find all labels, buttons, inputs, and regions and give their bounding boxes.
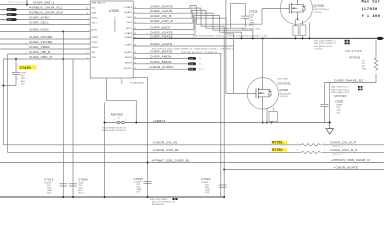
wire CHGR_BAT_1	[0, 0, 90, 6]
svg-text:+PPDCIN_S5B_CHGR_R: +PPDCIN_S5B_CHGR_R	[331, 158, 370, 162]
svg-text:CHGR_CBI_R: CHGR_CBI_R	[29, 50, 51, 54]
svg-text:C7690: C7690	[78, 178, 88, 182]
svg-text:SMB_CHGR_AGND: SMB_CHGR_AGND	[150, 198, 168, 201]
label Q7035	[277, 78, 291, 98]
svg-text:CHGR_DGATE: CHGR_DGATE	[150, 4, 173, 8]
wire CHGR_AGATE	[133, 9, 191, 13]
svg-text:DCMP: DCMP	[91, 37, 98, 39]
svg-text:C7025: C7025	[249, 10, 258, 14]
svg-text:+PPBAT_S5B_CHGR_RL: +PPBAT_S5B_CHGR_RL	[151, 159, 190, 163]
wire +PPBAT_S5B_CHGR_RL row	[0, 158, 384, 162]
svg-text:+SMBAT: +SMBAT	[153, 119, 166, 123]
svg-text:C7026: C7026	[201, 177, 211, 181]
wire CHGR_CBO_R	[3, 55, 90, 60]
svg-text:CSIP: CSIP	[126, 17, 132, 19]
svg-text:20C: 20C	[21, 83, 25, 85]
svg-text:CHGR_AMON: CHGR_AMON	[150, 54, 171, 58]
U7000 pin ACIN pin 2	[88, 29, 98, 33]
svg-text:Q7030: Q7030	[313, 4, 324, 8]
svg-text:CHGR_CSO_R: CHGR_CSO_R	[150, 19, 174, 23]
wire CHGR_BOOT	[133, 26, 194, 31]
svg-text:CHGR_LGATE: CHGR_LGATE	[150, 42, 172, 46]
label Q7030	[313, 4, 329, 14]
svg-text:SCL: SCL	[91, 8, 96, 10]
svg-text:CHGR_ACIN: CHGR_ACIN	[29, 28, 49, 32]
wire LGATE drop	[329, 83, 331, 123]
wire CHGR_DGATE	[133, 4, 190, 8]
wire CHGR_PHASE	[133, 34, 384, 38]
wire ACIN drop	[62, 32, 64, 60]
svg-text:CSIN: CSIN	[126, 22, 132, 24]
U7000 pin CBI pin 10	[87, 52, 96, 55]
wire C7095 vertical	[133, 78, 147, 197]
capacitor C7013	[44, 178, 67, 195]
svg-text:1: 1	[114, 120, 115, 122]
wire CHGR_CSO_R	[133, 19, 193, 23]
wire CHGR_AMON	[133, 54, 189, 59]
svg-text:2: 2	[324, 143, 325, 145]
svg-text:SMB_CHGR_SDA_2: SMB_CHGR_SDA_2	[331, 88, 349, 91]
svg-text:+CHGR_ACDRV: +CHGR_ACDRV	[149, 65, 174, 69]
wire AGND rail	[0, 196, 225, 198]
svg-text:C7013: C7013	[44, 178, 54, 182]
svg-text:SYNC: SYNC	[91, 18, 98, 20]
U7000 pin DCMP pin 7	[88, 37, 99, 40]
resistor R7052	[272, 148, 358, 156]
capacitor C7095	[134, 177, 152, 194]
svg-text:ISL88731RTZ: ISL88731RTZ	[131, 83, 145, 85]
capacitor C7690	[67, 178, 88, 195]
svg-text:NO STUFF: NO STUFF	[346, 49, 363, 53]
svg-text:+CHGR_CSI_RL: +CHGR_CSI_RL	[153, 141, 179, 145]
connector pill AMON	[188, 57, 201, 60]
svg-text:ACIN: ACIN	[91, 29, 97, 32]
U7000 pin PHASE pin 22	[124, 36, 136, 39]
U7000 pin DGATE pin 21	[124, 6, 136, 9]
wire top vertical	[225, 0, 227, 93]
wire HSRBUS_CHGR_SDA	[0, 11, 90, 15]
U7000 pin BGATE pin 18	[124, 51, 136, 54]
wire CHGR_VCORE	[0, 40, 90, 45]
wire CHGR_LGATE	[133, 42, 233, 51]
transistor Q7035	[247, 78, 278, 109]
svg-text:CHGR_BAT_1: CHGR_BAT_1	[33, 1, 55, 5]
svg-text:CELL: CELL	[91, 23, 98, 25]
svg-text:SIA3365DPN: SIA3365DPN	[279, 92, 291, 95]
svg-text:C7650: C7650	[20, 66, 31, 70]
wire CHGR_BGATE	[133, 49, 221, 54]
resistor R7039 (NO STUFF)	[346, 40, 378, 83]
svg-text:AGATE: AGATE	[124, 11, 132, 14]
wire PHASE to Q7035 drain	[262, 38, 264, 86]
capacitor C7025	[241, 3, 259, 30]
svg-text:CBI: CBI	[91, 52, 95, 54]
svg-text:HSRBUS_CHGR_SDA: HSRBUS_CHGR_SDA	[29, 11, 63, 15]
transistor Q7030	[280, 0, 312, 24]
svg-text:SJM3132DN8-01: SJM3132DN8-01	[313, 9, 329, 11]
wire +CHGR_CSI_RL row	[3, 141, 384, 145]
wire CBO rail left	[2, 59, 4, 145]
svg-text:23: 23	[2, 9, 4, 11]
connector pill BMON	[188, 62, 201, 65]
svg-text:SDA: SDA	[91, 12, 96, 15]
svg-text:BMON: BMON	[125, 62, 132, 64]
svg-text:L7030-N1: L7030-N1	[313, 12, 321, 14]
U7000 pin AMON pin 14	[125, 56, 136, 59]
svg-text:1/10W 5% ##: 1/10W 5% ##	[332, 154, 343, 156]
svg-text:NON_LOAD_SUSPECT_1: NON_LOAD_SUSPECT_1	[314, 40, 337, 43]
svg-text:2: 2	[324, 150, 325, 152]
svg-text:XXX: XXX	[249, 25, 254, 27]
svg-text:R7039: R7039	[350, 56, 361, 60]
wire C7025 top	[231, 2, 246, 4]
connector oval SDA	[2, 13, 17, 17]
connector pill ACDRV	[188, 68, 205, 71]
svg-text:R7052: R7052	[272, 148, 283, 152]
svg-text:LGATE: LGATE	[124, 44, 132, 47]
wire DGATE bundle	[190, 6, 282, 25]
svg-text:CHGR_BGATE: CHGR_BGATE	[150, 49, 173, 53]
wire CBI rail left	[7, 54, 9, 152]
U7000 pin SDA pin 25	[86, 12, 97, 16]
svg-text:CHGR_SYNC: CHGR_SYNC	[29, 16, 50, 20]
svg-text:+CHGR_AGATE: +CHGR_AGATE	[334, 166, 359, 170]
wire HSRBUS_CHGR_SCL	[0, 6, 90, 10]
svg-text:HSRBUS_CHGR_SCL: HSRBUS_CHGR_SCL	[29, 6, 63, 10]
wire CHGR_PHASE_RC	[325, 79, 377, 83]
svg-text:SMB_BAT_R: SMB_BAT_R	[91, 2, 105, 5]
svg-text:L-2-NOTE: L-2-NOTE	[314, 48, 323, 50]
svg-text:ACD_CTL3_BUFFER_1_M: ACD_CTL3_BUFFER_1_M	[152, 201, 175, 204]
svg-text:PLACE NEAR L7030: PLACE NEAR L7030	[242, 28, 260, 31]
svg-text:Q7035: Q7035	[279, 88, 288, 92]
wire CHGR_UGATE	[133, 30, 195, 35]
svg-text:CHGR_BMON: CHGR_BMON	[150, 60, 171, 64]
svg-text:2: 2	[17, 78, 18, 80]
wire BGATE vertical	[220, 53, 222, 197]
wire CHGR_DCORE	[0, 35, 90, 39]
svg-text:DGATE: DGATE	[124, 6, 132, 9]
svg-text:L7030-N1: L7030-N1	[280, 96, 288, 98]
connector oval SYNC	[2, 18, 17, 22]
wire +CHGR_AGATE row	[224, 166, 384, 170]
U7000 pin VREG pin 1	[88, 47, 98, 50]
wire CHGR_CELL	[0, 21, 90, 25]
svg-text:20C-1: 20C-1	[79, 192, 86, 194]
jumper RW7000	[102, 113, 126, 132]
U7000 pin CSIP pin 25	[126, 17, 136, 19]
svg-text:NON_LTBR_ACOUSTIC_2_IN_CHGR_XX: NON_LTBR_ACOUSTIC_2_IN_CHGR_XX	[181, 51, 218, 54]
svg-text:#1: #1	[199, 64, 201, 66]
wire CHGR_BMON	[133, 60, 189, 65]
svg-text:SMB_CHGR_ACDETECT_JUDGE_L : 1: SMB_CHGR_ACDETECT_JUDGE_L : 1 SM NON_LTB…	[193, 35, 267, 38]
U7000 bottom pad pin stub	[120, 78, 122, 84]
capacitor C7650	[2, 59, 36, 86]
note AGND block	[150, 198, 178, 206]
svg-text:CHGR_PHASE_RC: CHGR_PHASE_RC	[334, 79, 364, 83]
wire CSIP bundle	[192, 11, 245, 29]
wire UGATE bundle	[195, 18, 234, 34]
svg-text:UGATE: UGATE	[124, 32, 132, 35]
wire CHGR_CBI_R	[8, 50, 91, 55]
svg-text:#1: #1	[199, 58, 201, 60]
svg-text:PACKAGE-M1: PACKAGE-M1	[152, 203, 164, 206]
U7000 pin AGATE pin 4	[124, 11, 135, 14]
svg-text:1: 1	[17, 65, 18, 67]
svg-text:CHGR_VCORE: CHGR_VCORE	[29, 40, 52, 44]
svg-text:CHGR_PHASE: CHGR_PHASE	[150, 34, 173, 38]
svg-text:ISL6259AHRTZ: ISL6259AHRTZ	[114, 16, 117, 32]
off-page box PPBUS right	[378, 37, 383, 40]
U7000 pin CELL pin 1	[88, 23, 98, 26]
wire chip bottom route	[107, 78, 137, 123]
svg-text:ALU: ALU	[21, 80, 26, 83]
capacitor C7026	[201, 177, 227, 194]
svg-text:1: 1	[297, 150, 298, 152]
U7000 pin SCL pin 23	[86, 8, 97, 11]
svg-text:XXX: XXX	[47, 192, 52, 194]
wire PGND horizontal	[105, 122, 330, 124]
resistor box Q7035 sense	[269, 107, 277, 122]
wire +CHGR_ACDRV	[133, 65, 189, 69]
svg-text:PHASE: PHASE	[124, 36, 132, 39]
svg-text:CHGR_DCORE: CHGR_DCORE	[29, 35, 53, 39]
U7000 pin LGATE pin 20	[124, 44, 136, 47]
wire Q7030 to rail	[295, 19, 297, 25]
svg-text:22: 22	[118, 118, 120, 120]
wire CHGR_CSI_R	[133, 14, 192, 18]
svg-text:C7095: C7095	[134, 177, 144, 181]
svg-text:CHGR_WAKE_NOTE: CHGR_WAKE_NOTE	[331, 91, 350, 94]
resistor box Q7030 source 1	[293, 26, 298, 36]
resistor box Q7030 source 2	[300, 25, 306, 36]
wire Q7035 source leads	[262, 109, 264, 123]
U7000 pin BOOT pin 24	[126, 28, 136, 30]
svg-text:PPBUS_G3H_CHGR: PPBUS_G3H_CHGR	[8, 2, 28, 4]
U7000 pin SYNC pin 1	[88, 18, 98, 21]
note max current	[362, 0, 381, 19]
groups inserted below	[86, 1, 145, 85]
wire LGATE drop to Q7035 gate	[233, 34, 235, 94]
svg-text:CHGR_BOOT: CHGR_BOOT	[150, 26, 171, 30]
svg-text:NVR_CHRG: NVR_CHRG	[278, 78, 289, 80]
svg-text:CHGR_CBO_R: CHGR_CBO_R	[29, 55, 53, 59]
note block right	[314, 40, 350, 51]
svg-text:BOOT: BOOT	[126, 28, 133, 30]
wire +CHGR_CSO_RL row	[8, 148, 384, 152]
svg-text:(L7030: (L7030	[362, 7, 378, 12]
svg-text:5%: 5%	[362, 63, 365, 65]
U7000 pin VCMP pin 1	[88, 42, 99, 45]
svg-text:25V: 25V	[21, 75, 25, 77]
U7000 pin ACDRV pin 16	[124, 67, 136, 70]
svg-text:RW7000: RW7000	[111, 113, 124, 117]
resistor R7051	[272, 141, 356, 149]
svg-text:CHGR_CELL: CHGR_CELL	[29, 21, 49, 25]
svg-text:VCMP: VCMP	[91, 42, 98, 44]
node PHASE junction dots	[241, 37, 243, 39]
wire BOOT bundle	[194, 16, 242, 39]
node PGND dots	[262, 122, 264, 124]
svg-text:11: 11	[2, 19, 4, 21]
svg-text:CHGR_CSO_R_P: CHGR_CSO_R_P	[330, 148, 357, 152]
wire SMB vertical left	[104, 103, 106, 198]
svg-text:PLA_INRUSH_NOTE: PLA_INRUSH_NOTE	[314, 45, 333, 48]
svg-text:CRYSTAL: CRYSTAL	[277, 82, 291, 86]
svg-text:CHGR_AGATE: CHGR_AGATE	[150, 9, 173, 13]
svg-text:2: 2	[125, 120, 126, 122]
svg-text:VREG: VREG	[91, 47, 98, 49]
svg-text:AMON: AMON	[125, 56, 132, 59]
capacitor C7039 (NO STUFF)	[321, 83, 348, 123]
svg-text:U7000: U7000	[109, 9, 119, 13]
svg-text:1: 1	[297, 143, 298, 145]
U7000 pin CBO pin 11	[87, 57, 97, 60]
svg-text:PLACE RESISTORS IN-LIN: PLACE RESISTORS IN-LIN	[102, 129, 126, 132]
svg-text:XXX: XXX	[137, 192, 142, 194]
svg-text:10UF: 10UF	[21, 73, 27, 75]
svg-text:XXX: XXX	[205, 192, 210, 194]
svg-text:21: 21	[2, 14, 4, 16]
svg-text:CHGR_VREG: CHGR_VREG	[29, 45, 50, 49]
U7000 pin UGATE pin 23	[124, 32, 136, 35]
svg-text:NO STUFF: NO STUFF	[334, 95, 347, 98]
connector oval SCL	[2, 8, 17, 12]
svg-text:BGATE: BGATE	[124, 51, 132, 54]
svg-text:R7051: R7051	[272, 141, 283, 145]
ground	[326, 123, 334, 135]
svg-text:f = 400: f = 400	[362, 14, 381, 19]
svg-text:+CHGR_CSO_RL: +CHGR_CSO_RL	[153, 148, 180, 152]
wire ACIN vertical to ground rail	[62, 59, 64, 197]
wire CSIN bundle	[193, 13, 253, 38]
U7000 pin CSIN pin 21	[126, 22, 136, 24]
svg-text:ACDRV: ACDRV	[124, 67, 133, 70]
note SMB lines	[331, 86, 362, 94]
svg-text:20%: 20%	[21, 78, 25, 80]
svg-text:5: 5	[122, 82, 123, 84]
svg-text:RC: RC	[362, 66, 366, 68]
wire BOOT top link	[230, 3, 232, 28]
wire CHGR_ACIN	[0, 28, 90, 33]
wire AGATE vertical	[223, 26, 225, 197]
charger IC U7000	[90, 1, 145, 85]
svg-text:C7039: C7039	[335, 100, 344, 104]
wire AGATE bundle	[191, 8, 224, 26]
wire CHGR_VREG	[0, 45, 90, 49]
svg-text:CBO: CBO	[91, 57, 96, 59]
svg-text:CHGR_CSI_R: CHGR_CSI_R	[150, 14, 172, 18]
svg-text:CHGR_CSI_R_P: CHGR_CSI_R_P	[330, 141, 356, 145]
U7000 pin BMON pin 13	[125, 62, 136, 64]
wire CHGR_SYNC	[0, 16, 90, 20]
svg-text:Max Cur: Max Cur	[362, 0, 381, 5]
wire C7690 vertical	[72, 59, 74, 197]
